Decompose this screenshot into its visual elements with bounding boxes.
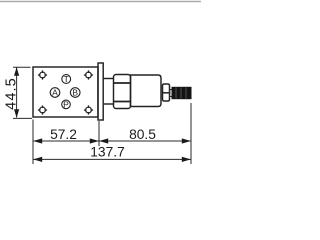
- cylinder body: [131, 75, 162, 107]
- valve mounting plate front view: [33, 67, 98, 117]
- bolt hole bottom-left: [38, 105, 47, 114]
- port B: [70, 88, 80, 98]
- arrow left at x33 y141: [33, 138, 42, 143]
- threaded adjustment stud: [170, 87, 192, 99]
- svg-text:A: A: [52, 88, 58, 98]
- port A: [50, 88, 60, 98]
- svg-text:B: B: [72, 88, 78, 98]
- small hex nut: [163, 84, 170, 101]
- neck bottom line: [103, 103, 113, 105]
- bolt hole top-left: [38, 70, 47, 79]
- hex body: [114, 75, 131, 109]
- arrow right at x191 y159.4: [182, 157, 191, 162]
- port P: [62, 100, 71, 109]
- svg-text:80.5: 80.5: [129, 127, 156, 142]
- svg-text:P: P: [63, 99, 69, 109]
- svg-text:57.2: 57.2: [50, 127, 77, 142]
- neck top line: [103, 78, 113, 80]
- dim 44.5 extension line top: [13, 66, 31, 68]
- side view mounting flange plate: [98, 63, 103, 120]
- top border line: [0, 1, 201, 3]
- dim line 57.2 / 80.5: [33, 140, 191, 142]
- arrow right at x191 y141: [182, 138, 191, 143]
- extension line right x191: [190, 103, 192, 164]
- arrow left at x99 y141: [99, 138, 108, 143]
- svg-text:44.5: 44.5: [3, 77, 19, 110]
- bolt hole top-right: [84, 70, 93, 79]
- svg-text:137.7: 137.7: [90, 144, 125, 159]
- extension line left x33: [32, 120, 34, 165]
- extension line middle x99: [98, 121, 100, 146]
- arrow right at x99 y141: [90, 138, 99, 143]
- arrow up (44.5 top): [14, 67, 19, 76]
- dim line 137.7: [33, 158, 191, 160]
- arrow left at x33 y159.4: [33, 157, 42, 162]
- bolt hole bottom-right: [84, 105, 93, 114]
- dim 44.5 extension line bottom: [13, 117, 32, 119]
- dim 44.5 dimension line: [16, 68, 18, 118]
- arrow down (44.5 bottom): [14, 109, 19, 118]
- port T: [62, 75, 71, 84]
- svg-text:T: T: [64, 74, 69, 84]
